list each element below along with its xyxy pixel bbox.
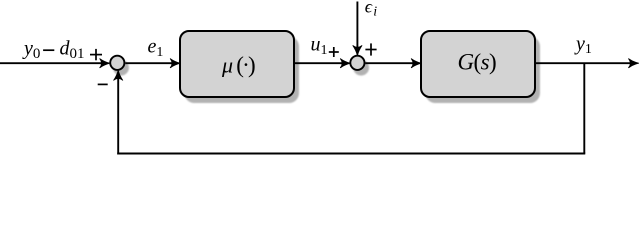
summing junction 2 <box>350 56 364 70</box>
wire: feedback up into junction 1 <box>117 74 119 155</box>
wire: feedback tap down from output line <box>583 63 585 153</box>
block mu(.) controller <box>180 31 294 97</box>
svg-text:ϵi: ϵi <box>365 0 377 20</box>
wire: feedback bottom run <box>117 153 585 155</box>
block G(s) shadow <box>425 36 540 103</box>
svg-text:e1: e1 <box>148 36 164 61</box>
svg-text:u1: u1 <box>311 34 328 59</box>
plus sign after u1 <box>329 47 339 57</box>
wire: input line from y0-d01 into summing junction 1 <box>0 62 107 64</box>
wire: junction 2 to G block <box>365 62 418 64</box>
wire: disturbance epsilon_i vertical into junction 2 <box>356 2 358 53</box>
block mu(.) shadow <box>184 36 299 103</box>
block G(s) plant <box>421 31 535 97</box>
svg-text:y1: y1 <box>574 33 592 57</box>
plus sign at junction 2 top input <box>365 43 376 55</box>
svg-text:μ(·): μ(·) <box>221 52 255 77</box>
wire: e1 from junction 1 to mu block <box>125 62 177 64</box>
wire: output y1 from G block to the right <box>535 62 636 64</box>
minus sign at junction 1 feedback input <box>98 83 108 85</box>
svg-text:y0: y0 <box>22 37 40 62</box>
summing junction 1 <box>110 56 124 70</box>
summing junction 2 shadow <box>353 60 369 76</box>
svg-text:d01: d01 <box>60 37 85 62</box>
wire: u1 from mu block to summing junction 2 <box>294 62 347 64</box>
svg-text:G(s): G(s) <box>458 49 497 74</box>
plus sign at junction 1 input <box>90 49 102 60</box>
summing junction 1 shadow <box>113 60 129 76</box>
